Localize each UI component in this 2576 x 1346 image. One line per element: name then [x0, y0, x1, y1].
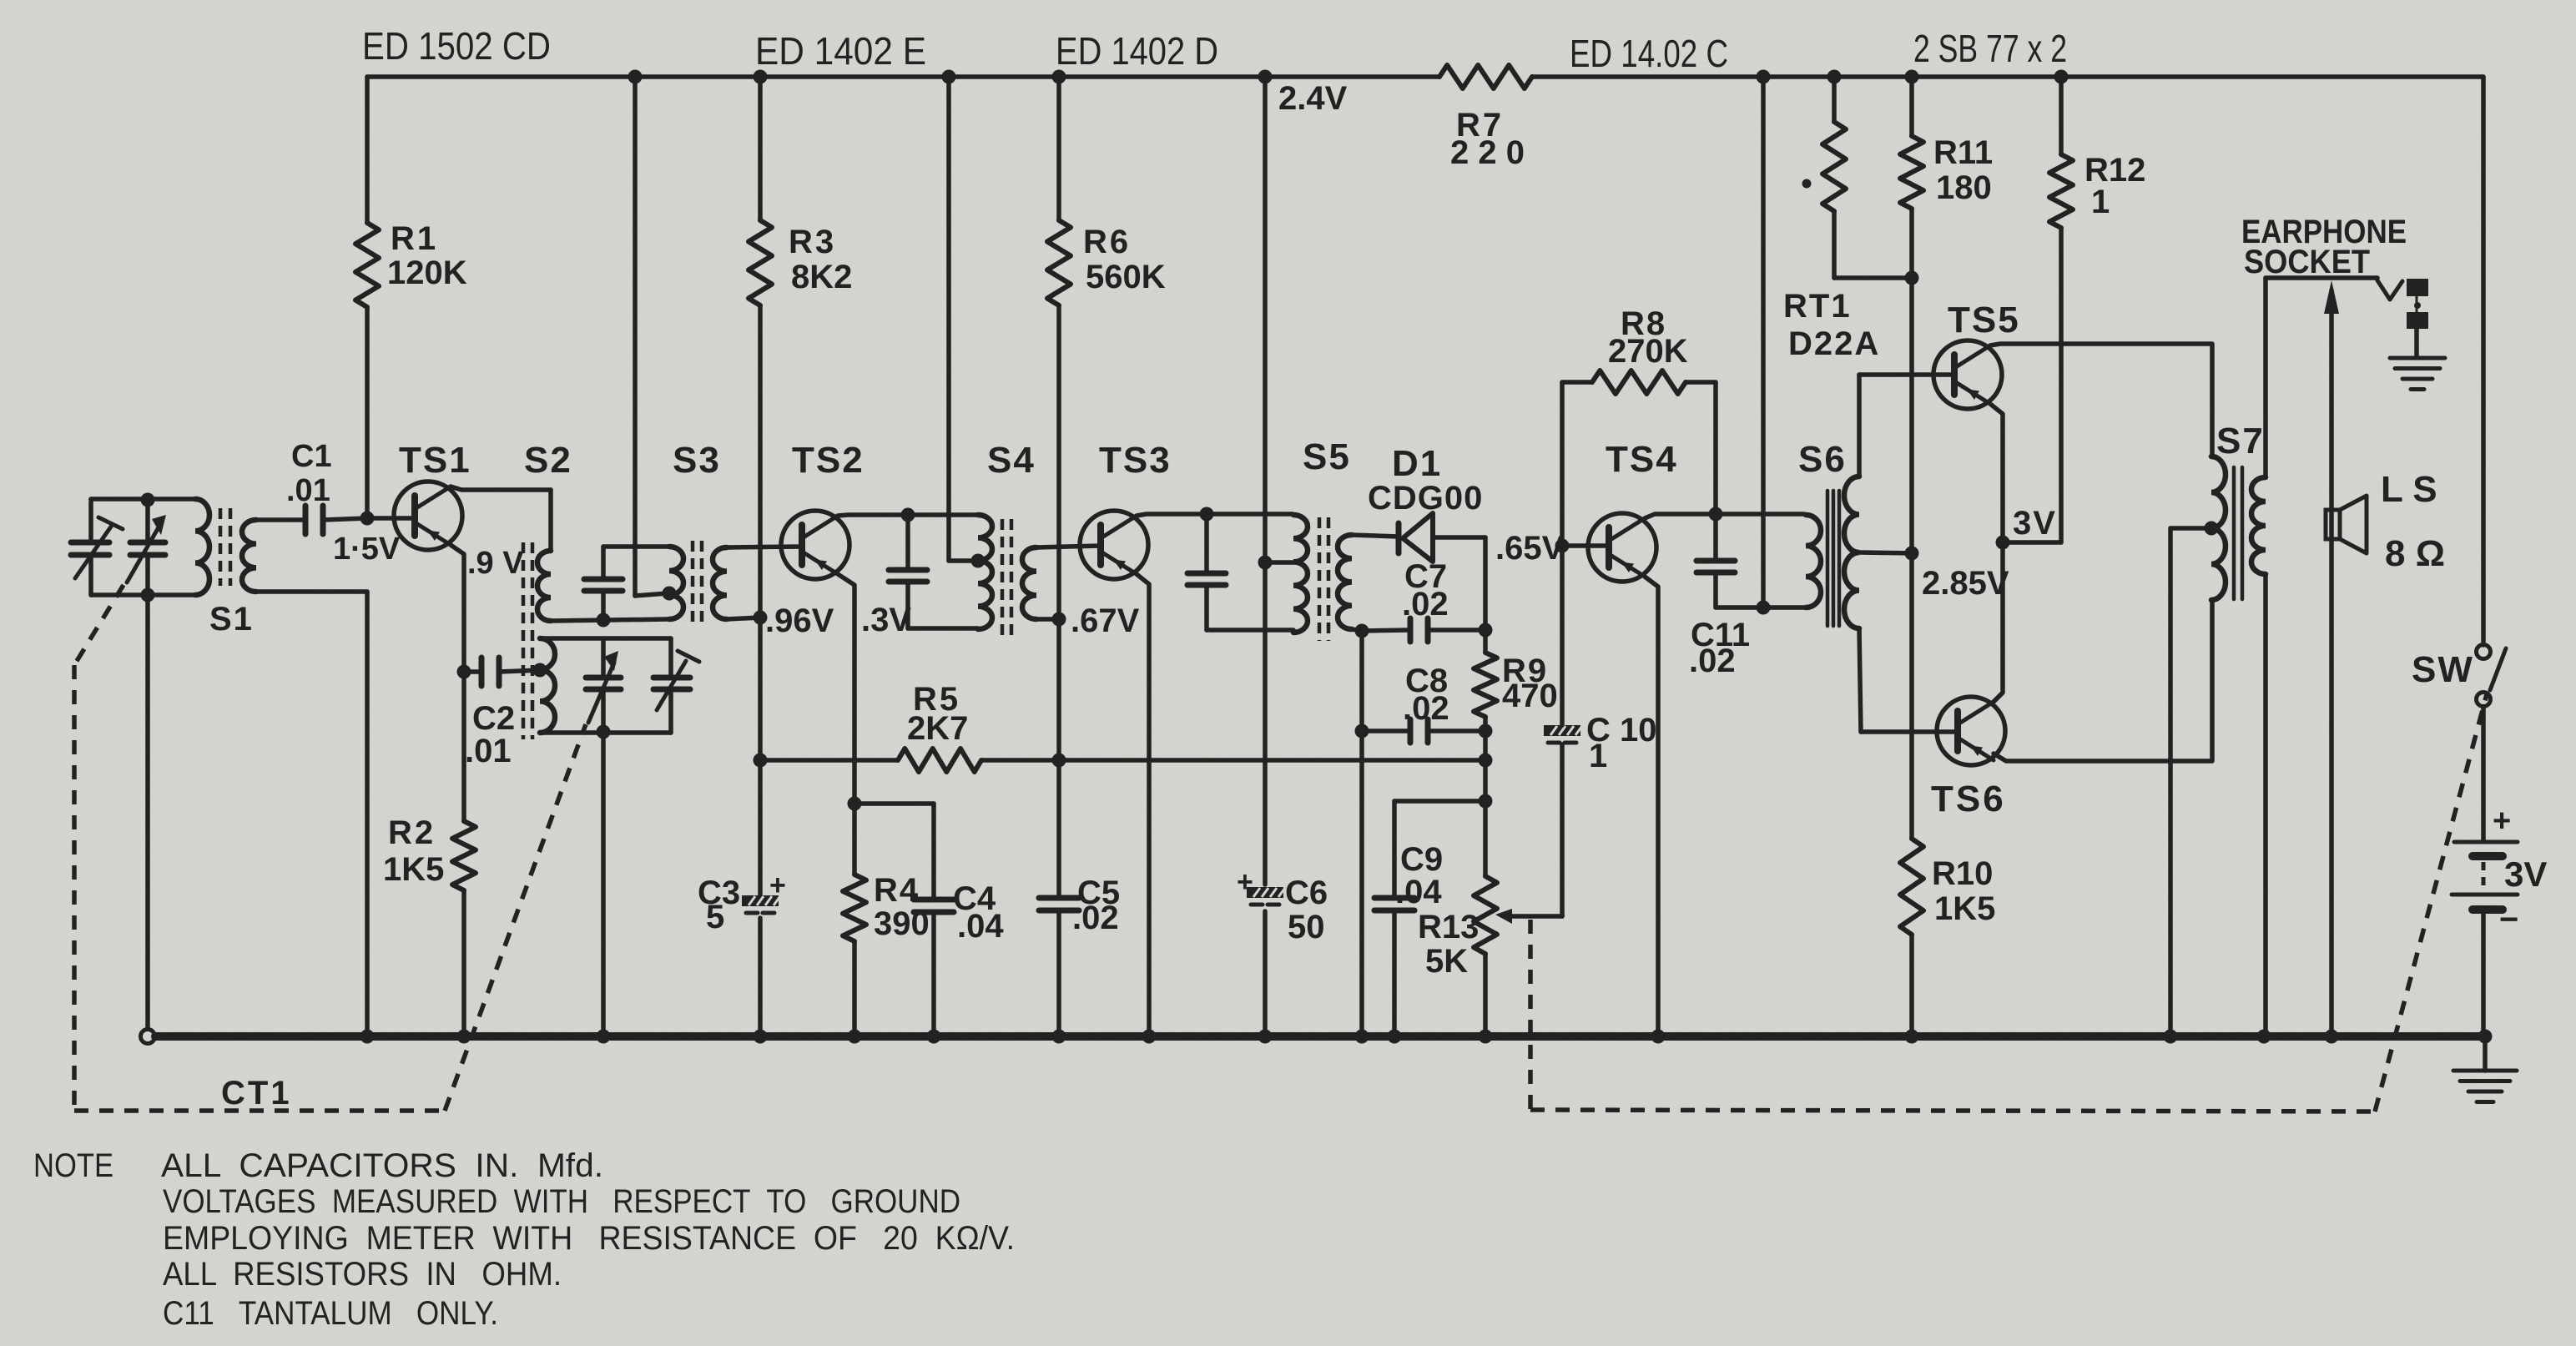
transistor TS5 [1933, 340, 2002, 409]
wire S3 secondary node down to AGC line [758, 618, 763, 760]
wire C9 to ground rail [1392, 910, 1397, 1036]
wire battery to ground rail [2481, 911, 2486, 1036]
wire C7 right lead [1428, 628, 1485, 633]
switch SW bottom contact [2477, 693, 2491, 707]
wire S6 secondary tap to bias divider [1859, 552, 1912, 553]
transformer S2 feedback winding (top) [548, 490, 553, 551]
loudspeaker LS frame [2326, 510, 2340, 539]
transistor TS2 [781, 511, 849, 579]
wire S5 secondary bottom [1352, 629, 1362, 631]
node antenna box top [141, 493, 155, 507]
wire AGC line right segment [981, 758, 1485, 763]
junction on ground rail x=2978 [2478, 1030, 2493, 1044]
transformer S3 primary winding [669, 547, 683, 619]
wire S7 secondary bottom to ground rail [2263, 574, 2268, 1036]
wire TS3 collector to S5 [1137, 514, 1293, 516]
wire S6 secondary top to TS5 base [1857, 375, 1862, 476]
wire S2 winding bottom to S3 primary bottom [551, 619, 669, 621]
node C7 right [1479, 623, 1493, 638]
dashed link from volume control down [1528, 920, 1533, 1110]
wire tuning cap bottom lead [145, 558, 150, 595]
wire R4 bottom to ground rail [852, 941, 857, 1036]
capacitor C10 (electrolytic) [1544, 725, 1580, 736]
wire R1 top lead from rail [365, 77, 370, 223]
junction on top rail x=1269 [1052, 70, 1066, 84]
core of S1 [219, 508, 223, 586]
resistor R10 [1900, 839, 1923, 935]
wire S4 secondary top to TS3 base [1036, 546, 1101, 547]
capacitor across S5 primary [1187, 571, 1226, 577]
transformer S1 primary winding [195, 499, 209, 595]
capacitor C4 [914, 897, 954, 903]
thermistor dot mark [1802, 179, 1812, 189]
trimmer capacitor (antenna, left) [71, 540, 109, 546]
transformer S1 secondary winding [242, 520, 256, 592]
junction on ground rail x=723 [597, 1030, 611, 1044]
wire detector output down [1483, 760, 1488, 801]
wire C7 left lead [1362, 630, 1410, 631]
resistor R8 [1592, 371, 1686, 394]
resistor R3 [749, 220, 772, 305]
wire D1 output [1433, 535, 1485, 540]
wire TS2 emitter down [838, 574, 854, 804]
junction on ground rail x=556 [457, 1030, 471, 1044]
junction on top rail x=1137 [942, 70, 956, 84]
junction on top rail x=2470 [2054, 70, 2069, 84]
wire AGC column to C5 [1056, 760, 1061, 898]
wire antenna circuit down to ground rail [145, 595, 150, 1029]
junction on ground rail x=1516 [1258, 1030, 1273, 1044]
node AGC line at R6 column [1052, 754, 1066, 768]
wire S5 cap bottom lead [1204, 585, 1209, 630]
switch SW top contact [2477, 645, 2491, 659]
node TS1 base junction [360, 512, 375, 526]
junction on ground rail x=1632 [1355, 1030, 1369, 1044]
node S4 primary tap (supply feed) [971, 554, 986, 568]
arrow of antenna tuning capacitor [127, 522, 162, 582]
junction on ground rail x=2713 [2257, 1030, 2271, 1044]
junction on ground rail x=2601 [2164, 1030, 2178, 1044]
capacitor C5 [1039, 895, 1079, 901]
core of S6 (iron) [1826, 491, 1830, 626]
junction on top rail x=2291 [1905, 70, 1919, 84]
junction on ground rail x=2794 [2325, 1030, 2339, 1044]
junction on ground rail x=911 [754, 1030, 768, 1044]
wire TS6 emitter to S7 primary bottom [1994, 600, 2212, 761]
core of S7 (iron) [2232, 467, 2236, 599]
node S4 cap top on collector wire [901, 508, 915, 522]
wire C9 box top edge [1394, 799, 1485, 804]
wire R6 top lead [1056, 77, 1061, 220]
transformer S6 secondary winding [1844, 476, 1859, 628]
transistor TS6 [1937, 697, 2005, 765]
battery cell 2 short plate [2473, 905, 2503, 914]
junction on ground rail x=1987 [1651, 1030, 1666, 1044]
wire R9 leads [1483, 630, 1488, 653]
wire S6 secondary bottom to TS6 base [1859, 628, 1861, 732]
wire R10 bottom to ground rail [1909, 935, 1914, 1036]
core of S2 [522, 542, 526, 739]
node antenna box bottom [141, 588, 155, 602]
wire R9 bottom to AGC line end [1483, 731, 1488, 760]
capacitor CT1 oscillator tuning section [586, 675, 621, 681]
node R4 C4 junction [848, 797, 862, 811]
core of S4 [1001, 519, 1005, 636]
node detector cold rail top [1355, 624, 1369, 638]
junction on top rail x=2113 [1757, 70, 1771, 84]
resistor R6 [1047, 220, 1071, 305]
wire C2 right lead to S2 tap [499, 670, 540, 672]
wire S7 tap ground line down [2168, 528, 2173, 1036]
wire R13 bottom to ground rail [1483, 954, 1488, 1036]
core of S5 [1318, 517, 1322, 641]
wire supply dropper from rail to S4 tap [946, 77, 951, 561]
transformer S6 primary winding [1806, 515, 1821, 607]
wire S4 secondary bottom [1036, 617, 1059, 622]
wire S7 tap to ground line [2170, 526, 2211, 531]
junction on ground rail x=1024 [848, 1030, 862, 1044]
paper grain overlay [0, 0, 1, 1]
wire jack sleeve to ground [2414, 329, 2419, 357]
jack tip contact mark [2414, 302, 2421, 309]
wire R2 bottom to ground rail [461, 890, 466, 1036]
wire oscillator tuning cap bottom lead [601, 693, 606, 733]
node S3 primary tap (supply feed) [663, 587, 677, 601]
earphone jack contact V [2377, 280, 2402, 300]
wire S4 cap bottom lead [905, 582, 910, 628]
wire R3 top lead [758, 77, 763, 220]
core of S3 [691, 541, 695, 626]
wire S5 cap top lead [1204, 514, 1209, 571]
wire antenna box left edge lower [88, 558, 93, 595]
node C8 left [1355, 724, 1369, 739]
node S3 cap bottom [597, 613, 611, 628]
wire S3 secondary top to TS2 base [727, 547, 802, 547]
capacitor C11 [1696, 558, 1735, 564]
node output totem (3V) [1996, 536, 2010, 550]
wire supply dropper from rail to S6 [1761, 77, 1766, 607]
junction on top rail x=761 [628, 70, 643, 84]
terminal open circle at left end of ground rail [141, 1030, 155, 1044]
wire oscillator box bottom edge [540, 730, 671, 735]
trimmer arrow (oscillator trimmer) [657, 661, 686, 710]
ground symbol at battery [2453, 1069, 2517, 1073]
capacitor C2 [479, 658, 485, 686]
wire AGC node to C3 [758, 760, 763, 895]
wire TS2 collector to S4 [838, 515, 978, 516]
dashed gang link antenna section [74, 585, 124, 665]
wire speaker line with plug-break arrow [2329, 290, 2334, 1036]
wire C8 left lead [1362, 728, 1410, 733]
wire S1 secondary return to ground [365, 592, 370, 1036]
wire bottom ground rail [155, 1032, 2485, 1041]
wire S3 cap bottom lead [601, 591, 606, 620]
resistor R4 [852, 804, 857, 875]
battery cell 2 long plate [2452, 893, 2518, 897]
node S4 secondary bottom on R6 line [1052, 613, 1066, 627]
node S7 primary centre tap [2205, 522, 2219, 536]
junction on top rail x=1516 [1258, 70, 1273, 84]
dashed gang link bottom horizontal [74, 1108, 445, 1113]
node volume divider top [1479, 794, 1493, 809]
wire C1 to base node [323, 518, 367, 520]
junction on ground rail x=1269 [1052, 1030, 1066, 1044]
capacitor across S4 primary [889, 567, 927, 573]
wire bias line down to R10 [1909, 553, 1914, 839]
battery middle lead (dashed) [2482, 862, 2486, 891]
junction on top rail x=2198 [1827, 70, 1842, 84]
transistor TS1 [394, 481, 462, 550]
dashed gang link diagonal to oscillator section [445, 724, 586, 1111]
wire base node to TS1 [367, 516, 415, 521]
wire C5 to ground rail [1056, 910, 1061, 1036]
transformer S5 secondary winding [1338, 535, 1352, 629]
wire switch to battery [2481, 707, 2486, 840]
wire TS3 emitter to ground rail [1137, 574, 1149, 1036]
wiper arrow of R13 [1495, 909, 1512, 924]
wire R1 bottom lead to TS1 base node [365, 307, 370, 518]
wire supply dropper from rail to S5 area [1263, 77, 1268, 562]
wire TS1 collector to S2 [451, 486, 551, 490]
wire oscillator box right edge lower [668, 693, 673, 733]
capacitor C7 [1408, 618, 1414, 642]
transistor TS3 [1080, 511, 1148, 579]
switch SW lever [2490, 648, 2506, 690]
capacitor C9 [1374, 895, 1414, 901]
transformer S3 secondary winding [713, 547, 727, 619]
resistor R11 [1900, 136, 1923, 209]
wire S4 secondary node to AGC line [1056, 619, 1061, 760]
wire oscillator tuning cap top lead [601, 638, 606, 674]
resistor R7 (in top rail) [1439, 65, 1532, 88]
trimmer capacitor (oscillator, right) [653, 675, 690, 681]
thermistor RT1 [1822, 122, 1846, 211]
wire antenna box top edge [91, 497, 195, 502]
wire supply dropper from rail to S3 tap [633, 77, 638, 596]
wire oscillator box right edge upper [668, 638, 673, 674]
capacitor C6 (electrolytic) [1247, 887, 1283, 898]
wire C10 top to TS4 base node [1560, 546, 1565, 725]
node RT1 R11 junction [1905, 271, 1919, 285]
wire S4 cap top lead [905, 515, 910, 567]
earphone jack plug symbol [2407, 279, 2428, 296]
node S5 primary tap (supply feed) [1258, 556, 1273, 570]
wire R4 node to C4 [854, 801, 934, 806]
dashed link bottom horizontal to switch [1530, 1110, 2375, 1112]
wire R11 bottom to S6 tap node [1909, 209, 1914, 553]
wire S5 tap stub [1265, 560, 1293, 565]
wire oscillator box top edge [540, 636, 671, 641]
transistor TS4 [1588, 513, 1656, 582]
wire ground rail stub to ground symbol [2483, 1036, 2488, 1071]
wire detector cold rail to ground [1359, 631, 1364, 1036]
wire C6 to ground rail [1263, 911, 1268, 1036]
wire S1 secondary top to C1 [256, 517, 303, 522]
wire antenna box left edge upper [88, 499, 93, 539]
diode D1 cathode bar [1396, 523, 1402, 553]
wire R6 bottom to S4 secondary node [1056, 305, 1061, 619]
node AGC line left end [754, 754, 768, 768]
resistor R12 [2049, 154, 2073, 228]
arrow of oscillator tuning capacitor [588, 663, 614, 723]
capacitor across S3 primary [584, 577, 623, 582]
potentiometer R13 [1483, 801, 1488, 876]
ground symbol at earphone socket [2390, 356, 2445, 360]
node S6 primary bottom supply feed [1757, 601, 1771, 615]
wire TS4 emitter to ground rail [1645, 577, 1658, 1036]
wire S7 secondary top to earphone socket [2263, 278, 2268, 477]
wire antenna box bottom edge [91, 592, 195, 597]
wire wiper riser to C10 [1560, 915, 1565, 916]
wire TS1 emitter down [451, 545, 464, 672]
node S3 secondary bottom [754, 611, 768, 625]
wire antenna box center stub [145, 499, 150, 539]
wire RT1 top lead [1832, 77, 1837, 122]
transformer S7 primary winding [2211, 456, 2226, 600]
node C2 tap on emitter line [457, 665, 471, 679]
wire S3 tuned circuit top edge [603, 544, 671, 549]
node C11 top on collector wire [1709, 507, 1723, 522]
transformer S4 secondary winding [1022, 547, 1036, 619]
wire C3 to ground rail [758, 918, 763, 1036]
capacitor CT1 antenna tuning section [130, 540, 165, 546]
junction on ground rail x=1377 [1142, 1030, 1157, 1044]
wire S3 secondary bottom [727, 618, 760, 619]
capacitor C1 [303, 506, 309, 534]
wire R11 top lead [1909, 77, 1914, 136]
wire R12 top lead [2059, 77, 2064, 154]
wire R8 right bracket [1686, 380, 1716, 385]
resistor R9 [1474, 653, 1497, 717]
wire S5 column to C6 [1263, 562, 1268, 885]
transformer S5 primary winding [1293, 515, 1308, 633]
wire right edge from rail to switch [2481, 77, 2486, 645]
node TS4 base [1555, 539, 1570, 553]
wire top supply rail [367, 74, 1439, 79]
junction on ground rail x=1780 [1479, 1030, 1493, 1044]
junction on ground rail x=2291 [1905, 1030, 1919, 1044]
wire oscillator circuit down to ground rail [601, 733, 606, 1036]
wire TS6 collector up to output node [1994, 542, 2003, 702]
wire S3 cap top lead [601, 547, 606, 577]
wire C8 right lead [1428, 728, 1485, 733]
transformer S4 primary winding [978, 515, 992, 629]
node AGC line right end [1479, 754, 1493, 768]
wire R12 bottom to output node [2059, 228, 2064, 542]
junction on ground rail x=1119 [927, 1030, 941, 1044]
wire emitter line to R2 [461, 672, 466, 821]
battery cell 1 long plate [2454, 840, 2518, 844]
transformer S2 oscillator winding (bottom) [540, 638, 555, 733]
wire S1 secondary bottom lead [256, 589, 367, 594]
node S2 winding tap to C2 [533, 663, 547, 678]
node S5 cap top on collector wire [1200, 507, 1214, 522]
wire AGC line left segment [760, 758, 898, 763]
wire S5 secondary top to D1 [1352, 535, 1399, 537]
wire TS4 collector to S6 [1645, 514, 1804, 518]
resistor R2 [452, 821, 476, 890]
node C8 right R9 bottom [1479, 724, 1493, 739]
node oscillator box bottom [597, 725, 611, 739]
wire C9 top lead [1392, 801, 1397, 898]
wire C11 bottom lead [1713, 572, 1718, 607]
capacitor C8 [1408, 719, 1414, 743]
wire R3 bottom to S3 secondary node [758, 305, 763, 618]
capacitor C3 (electrolytic) [742, 895, 779, 906]
junction on ground rail x=1671 [1388, 1030, 1402, 1044]
diode D1 triangle [1403, 513, 1433, 562]
loudspeaker LS cone [2340, 496, 2367, 553]
junction on ground rail x=440 [360, 1030, 375, 1044]
battery cell 1 short plate [2473, 852, 2503, 860]
dashed link diagonal up to switch SW [2375, 694, 2487, 1112]
node bias divider at S6 tap [1905, 547, 1919, 561]
wire TS4 base lead [1562, 543, 1609, 548]
dashed gang link left vertical [72, 665, 77, 1111]
wire C11 top lead [1713, 514, 1718, 557]
wire TS5 collector to S7 primary top [1990, 344, 2212, 456]
wire TS5 emitter to output node [1990, 404, 2003, 542]
wire C4 to ground rail [931, 912, 936, 1036]
junction on top rail x=911 [754, 70, 768, 84]
resistor R5 (AGC feed) [898, 749, 981, 772]
wire C2 left lead [464, 669, 479, 674]
resistor R1 [355, 223, 379, 307]
transformer S7 secondary winding [2251, 477, 2266, 574]
wire R8 left bracket [1562, 380, 1592, 385]
trimmer arrow (antenna trimmer) [75, 527, 111, 578]
wire RT1 bottom lead [1832, 211, 1837, 278]
arrowhead of speaker break contact [2324, 280, 2339, 314]
